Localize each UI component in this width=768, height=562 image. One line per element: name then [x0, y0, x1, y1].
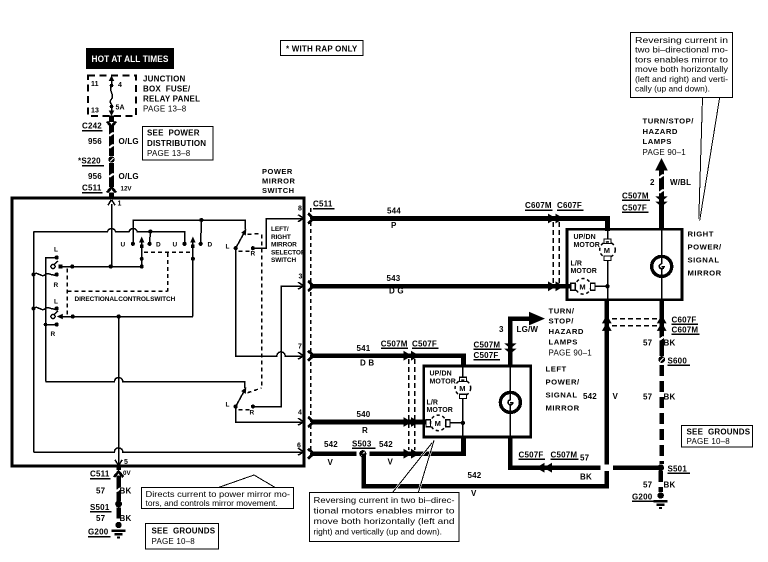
pin 5 arrow + label: [115, 459, 128, 466]
svg-text:542: 542: [468, 471, 482, 480]
right mirror bulb: [652, 231, 672, 299]
wire 542 V (S503 drop + bottom run to right mirror): [364, 300, 619, 498]
R2 contact: [44, 322, 59, 338]
svg-text:12V: 12V: [121, 186, 133, 193]
svg-text:TURN/: TURN/: [549, 307, 575, 316]
switch box outline: [12, 198, 304, 466]
R1 contact + wavy to left feed: [32, 272, 59, 289]
svg-text:R: R: [51, 331, 56, 338]
label RIGHT POWER/SIGNAL MIRROR: [688, 230, 723, 278]
wire 57 BK (right mirror bulb to S600): [643, 299, 675, 356]
wire 3 LG/W to turn/stop/hazard: [499, 312, 545, 366]
svg-text:RIGHT: RIGHT: [271, 234, 291, 241]
svg-text:POWER: POWER: [262, 167, 293, 176]
svg-text:13: 13: [91, 108, 99, 115]
svg-text:MIRROR: MIRROR: [262, 177, 295, 186]
dashed link drop to row F: [167, 253, 169, 291]
svg-text:U: U: [121, 242, 126, 249]
see grounds box (left): [146, 524, 219, 550]
svg-text:7: 7: [298, 344, 302, 351]
L2 contact + wavy: [32, 299, 59, 311]
svg-text:two bi–directional mo-: two bi–directional mo-: [635, 45, 728, 55]
connector C507M/C507F (541,540,542 rows): [381, 340, 439, 459]
node row E (pivot2 to blade2, drop to pin5): [62, 314, 193, 318]
svg-text:PAGE 90–1: PAGE 90–1: [643, 148, 687, 157]
svg-text:541: 541: [357, 344, 371, 353]
svg-text:tors enables mirror to: tors enables mirror to: [635, 54, 728, 64]
splice S600: [658, 356, 690, 365]
svg-text:C507F: C507F: [519, 451, 544, 460]
svg-text:MIRROR: MIRROR: [688, 269, 722, 278]
svg-text:D B: D B: [360, 359, 374, 368]
node row D (pin1 feed to pivot1 and blade1): [61, 264, 144, 268]
pin 6 row: [34, 448, 305, 452]
svg-text:BK: BK: [120, 487, 132, 496]
wire 57 BK (S600 to S501, dashed style): [643, 365, 675, 464]
dashed mechanical link row C: [144, 251, 192, 253]
wire into switch pin 1: [109, 193, 114, 199]
svg-text:MOTOR: MOTOR: [574, 242, 600, 249]
l/r motor (left mirror): [426, 400, 465, 437]
svg-text:G200: G200: [88, 528, 109, 537]
svg-text:D G: D G: [389, 287, 404, 296]
U/D blade 2: [190, 237, 195, 317]
svg-text:11: 11: [91, 81, 99, 88]
svg-text:D: D: [208, 242, 213, 249]
dashed row F: [67, 290, 167, 292]
svg-text:U: U: [173, 242, 178, 249]
left feed vertical (row B down to pin6 row): [33, 232, 35, 453]
svg-text:L: L: [54, 299, 58, 306]
svg-text:R: R: [250, 410, 255, 417]
svg-text:SEE GROUNDS: SEE GROUNDS: [152, 527, 216, 536]
svg-text:C507M: C507M: [551, 451, 578, 460]
svg-text:DISTRIBUTION: DISTRIBUTION: [147, 139, 206, 148]
connector C507M/C507F (2 W/BL): [622, 192, 668, 213]
see grounds box (right): [682, 426, 753, 448]
connector C507M/C507F (3 LG/W): [474, 341, 517, 361]
svg-text:RELAY PANEL: RELAY PANEL: [143, 95, 200, 104]
wire: drop to D2 contact: [199, 218, 203, 243]
up/dn motor (right mirror): [574, 230, 616, 286]
svg-text:2: 2: [650, 178, 655, 187]
svg-text:PAGE 10–8: PAGE 10–8: [687, 437, 731, 446]
svg-text:C507F: C507F: [474, 351, 499, 360]
svg-text:* WITH RAP ONLY: * WITH RAP ONLY: [286, 45, 358, 54]
svg-text:UP/DN: UP/DN: [574, 234, 596, 241]
svg-text:3: 3: [499, 325, 504, 334]
svg-text:57: 57: [643, 393, 653, 402]
svg-text:C607M: C607M: [672, 326, 699, 335]
pin exit arrows (8,3,7,4,6): [298, 215, 304, 456]
node row A (feeds U1, D2, selector blade): [133, 220, 245, 243]
svg-text:tors, and controls mirror move: tors, and controls mirror movement.: [146, 498, 278, 508]
svg-text:POWER/: POWER/: [688, 243, 723, 252]
wire 540 R: [313, 410, 426, 435]
U/D contact labels group2: [173, 242, 213, 249]
svg-text:L: L: [54, 247, 58, 254]
svg-text:D: D: [156, 242, 161, 249]
svg-text:C511: C511: [90, 470, 110, 479]
svg-text:542: 542: [379, 440, 393, 449]
svg-text:PAGE 13–8: PAGE 13–8: [147, 149, 191, 158]
label: LEFT/RIGHT MIRROR SELECTOR SWITCH: [271, 226, 306, 264]
svg-text:DIRECTIONAL CONTROL SWITCH: DIRECTIONAL CONTROL SWITCH: [75, 296, 176, 303]
svg-text:PAGE 90–1: PAGE 90–1: [549, 349, 593, 358]
svg-text:G200: G200: [632, 493, 653, 502]
wire 57 BK (S501 to G200 left): [96, 508, 131, 524]
with rap only note: [281, 41, 364, 56]
svg-text:L/R: L/R: [427, 400, 439, 407]
wire 57 BK (left mirror bulb to S501): [510, 437, 660, 482]
svg-text:C607F: C607F: [672, 316, 697, 325]
svg-text:V: V: [388, 458, 394, 467]
svg-text:O/LG: O/LG: [119, 172, 139, 181]
l/r motor (right mirror): [571, 261, 610, 300]
svg-text:Reversing current in: Reversing current in: [635, 35, 728, 45]
svg-text:C511: C511: [82, 184, 102, 193]
U/D contact labels group1: [121, 242, 162, 249]
splice S501 (left): [90, 501, 122, 512]
dashed link pivot1-pivot2: [66, 269, 68, 317]
svg-text:S501: S501: [668, 465, 688, 474]
svg-text:C511: C511: [313, 200, 333, 209]
wire: pivot1sel to pin7 row: [236, 248, 304, 356]
svg-text:LG/W: LG/W: [517, 325, 539, 334]
connector C511 (top): [82, 183, 132, 193]
svg-text:BOX FUSE/: BOX FUSE/: [143, 85, 191, 94]
svg-text:move both horizontally: move both horizontally: [635, 64, 729, 74]
svg-text:C607F: C607F: [557, 201, 582, 210]
svg-text:SEE GROUNDS: SEE GROUNDS: [687, 428, 751, 437]
row to lower selector blade: [46, 378, 245, 389]
wire 57 BK (C511 to S501 left): [96, 476, 131, 502]
up/dn motor (left mirror): [430, 367, 471, 422]
connector C607F/C607M (vertical pair below right mirror): [602, 315, 700, 335]
svg-text:M: M: [459, 384, 466, 393]
svg-text:V: V: [613, 392, 619, 401]
svg-text:SWITCH: SWITCH: [262, 186, 295, 195]
svg-text:L: L: [226, 244, 230, 251]
pin 1 arrow + label: [108, 200, 122, 208]
svg-text:540: 540: [357, 410, 371, 419]
svg-text:HOT AT ALL TIMES: HOT AT ALL TIMES: [92, 54, 169, 64]
svg-text:S501: S501: [90, 503, 110, 512]
svg-text:C242: C242: [82, 122, 102, 131]
svg-text:tional motors enables mirror t: tional motors enables mirror to: [314, 505, 455, 515]
label: POWER MIRROR SWITCH: [262, 167, 295, 195]
svg-text:57: 57: [96, 487, 106, 496]
pivot 1 (directional switch wiper): [51, 261, 63, 269]
svg-text:5: 5: [124, 459, 128, 466]
svg-text:3: 3: [299, 274, 303, 281]
wire: pin5 vertical: [118, 317, 120, 467]
connector C242: [82, 122, 116, 131]
see power distribution box: [143, 127, 214, 161]
svg-text:57: 57: [96, 514, 106, 523]
svg-text:*S220: *S220: [78, 157, 101, 166]
svg-text:R: R: [362, 426, 368, 435]
svg-text:SIGNAL: SIGNAL: [688, 256, 720, 265]
splice S501 (right): [657, 464, 690, 473]
fuse F (11/13, 4, 5A): [91, 76, 125, 117]
svg-text:PAGE 10–8: PAGE 10–8: [152, 537, 196, 546]
wire: pin1 vertical to node row D: [111, 204, 113, 267]
svg-text:BK: BK: [664, 393, 676, 402]
svg-text:M: M: [604, 246, 611, 255]
wire 543 DG: [313, 274, 570, 296]
svg-text:4: 4: [118, 82, 122, 89]
pin numbers on right edge: [297, 206, 303, 450]
svg-text:POWER/: POWER/: [546, 378, 581, 387]
callout: directs current (bottom left): [142, 475, 294, 509]
svg-text:C507M: C507M: [381, 340, 408, 349]
selector switch 2 (lower): [226, 286, 305, 417]
callout: reversing current (top right): [631, 33, 733, 221]
svg-text:542: 542: [324, 440, 338, 449]
svg-text:SIGNAL: SIGNAL: [546, 391, 578, 400]
left mirror bulb: [500, 367, 520, 436]
svg-text:cally (up and down).: cally (up and down).: [635, 84, 710, 94]
svg-text:JUNCTION: JUNCTION: [143, 75, 186, 84]
svg-text:542: 542: [583, 392, 597, 401]
white knockout where 57BK crosses 542V: [601, 464, 614, 471]
svg-text:C507M: C507M: [622, 192, 649, 201]
label TURN/STOP/HAZARD LAMPS PAGE 90-1 (right): [643, 117, 695, 158]
wire 956 O/LG (C242 to S220): [88, 129, 139, 156]
svg-text:C507M: C507M: [474, 341, 501, 350]
svg-text:LEFT/: LEFT/: [271, 226, 289, 233]
svg-text:C507F: C507F: [412, 340, 437, 349]
label LEFT POWER/SIGNAL MIRROR: [546, 365, 581, 413]
connector C507F/C507M (57 BK): [519, 451, 579, 473]
svg-text:L: L: [226, 402, 230, 409]
svg-text:M: M: [435, 419, 442, 428]
pin forks at C511: [308, 214, 314, 459]
svg-text:SWITCH: SWITCH: [271, 257, 296, 264]
svg-text:(left and right) and verti-: (left and right) and verti-: [635, 74, 728, 84]
svg-text:5A: 5A: [116, 105, 125, 112]
svg-text:R: R: [251, 251, 256, 258]
svg-text:O/LG: O/LG: [119, 137, 139, 146]
svg-text:4: 4: [298, 410, 302, 417]
svg-text:LAMPS: LAMPS: [549, 338, 578, 347]
junction box fuse/relay panel (dashed box): [88, 76, 136, 117]
svg-text:C607M: C607M: [525, 201, 552, 210]
svg-text:MOTOR: MOTOR: [427, 407, 453, 414]
wire 541 DB: [313, 344, 464, 368]
wire 956 O/LG (S220 to C511): [88, 163, 139, 184]
svg-text:STOP/: STOP/: [549, 317, 575, 326]
svg-text:HAZARD: HAZARD: [643, 127, 678, 136]
svg-text:BK: BK: [120, 514, 132, 523]
left mirror box: [424, 366, 531, 437]
svg-text:M: M: [579, 282, 586, 291]
node row B (from left feed; feeds D1, U2): [34, 229, 185, 243]
svg-text:P: P: [391, 221, 397, 230]
svg-text:RIGHT: RIGHT: [688, 230, 714, 239]
wire 57 BK (S501 to G200 right): [643, 471, 675, 492]
svg-text:SEE POWER: SEE POWER: [147, 129, 200, 138]
label: JUNCTION BOX FUSE/RELAY PANEL PAGE 13-8: [143, 75, 200, 114]
L1 contact + feed: [46, 247, 59, 382]
connector C511 dashed boundary: [311, 200, 335, 456]
wire: fuse to C242 (thick): [109, 116, 114, 123]
svg-text:956: 956: [88, 137, 102, 146]
svg-text:C507F: C507F: [622, 204, 647, 213]
ground G200 (right): [632, 492, 668, 509]
svg-text:956: 956: [88, 172, 102, 181]
wire 544 P: [313, 207, 608, 232]
dashed selector link vertical: [261, 235, 263, 388]
svg-text:BK: BK: [664, 339, 676, 348]
svg-text:MIRROR: MIRROR: [546, 404, 580, 413]
svg-text:TURN/STOP/: TURN/STOP/: [643, 117, 695, 126]
svg-text:544: 544: [387, 207, 401, 216]
svg-text:L/R: L/R: [571, 261, 583, 268]
svg-text:BK: BK: [664, 481, 676, 490]
pivot 2: [51, 311, 63, 319]
svg-text:543: 543: [387, 274, 401, 283]
svg-text:S600: S600: [668, 357, 688, 366]
svg-text:V: V: [328, 458, 334, 467]
svg-text:PAGE 13–8: PAGE 13–8: [143, 105, 187, 114]
callout: reversing current (bottom middle): [310, 440, 460, 541]
svg-text:BK: BK: [580, 473, 592, 482]
svg-text:UP/DN: UP/DN: [430, 371, 452, 378]
bottom C511 connector: [90, 466, 131, 479]
svg-text:1: 1: [118, 201, 122, 208]
U/D blade 1 (up/down motion switch): [139, 237, 144, 267]
svg-text:57: 57: [580, 454, 590, 463]
svg-text:S503: S503: [352, 440, 372, 449]
svg-text:SELECTOR: SELECTOR: [271, 249, 306, 256]
svg-text:W/BL: W/BL: [670, 178, 691, 187]
svg-text:Reversing current in two bi–di: Reversing current in two bi–direc-: [314, 495, 455, 505]
hot-at-all-times banner: [86, 48, 174, 69]
svg-text:MIRROR: MIRROR: [271, 242, 297, 249]
wire 2 W/BL to turn/stop/hazard (up arrow): [650, 158, 691, 229]
svg-text:LAMPS: LAMPS: [643, 137, 672, 146]
right mirror box: [567, 229, 682, 300]
svg-text:right) and vertically (up and: right) and vertically (up and down).: [314, 526, 442, 536]
ground G200 (left): [88, 522, 126, 539]
wire: pivot2sel to pin4 row: [236, 407, 304, 423]
svg-text:HAZARD: HAZARD: [549, 327, 584, 336]
svg-text:R: R: [54, 282, 59, 289]
svg-text:LEFT: LEFT: [546, 365, 567, 374]
svg-text:MOTOR: MOTOR: [430, 379, 456, 386]
svg-text:move both horizontally (left a: move both horizontally (left and: [314, 516, 455, 526]
splice S220: [78, 156, 115, 165]
svg-text:57: 57: [643, 481, 653, 490]
label TURN/STOP/HAZARD LAMPS PAGE 90-1 (left): [549, 307, 593, 358]
svg-text:V: V: [471, 489, 477, 498]
connector C607M/C607F (544,543): [525, 201, 584, 291]
wire 542 V (pin6 row) + splice S503: [313, 437, 464, 467]
svg-text:MOTOR: MOTOR: [571, 268, 597, 275]
svg-text:8: 8: [298, 206, 302, 213]
svg-text:57: 57: [643, 339, 653, 348]
svg-text:0V: 0V: [123, 470, 131, 477]
selector switch 1 (upper): [226, 219, 305, 258]
